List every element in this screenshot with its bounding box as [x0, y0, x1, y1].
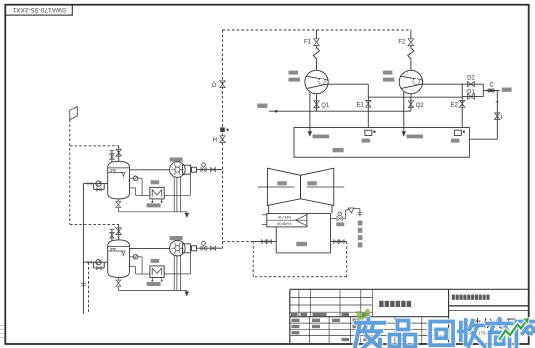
- svg-text:E2: E2: [451, 102, 459, 108]
- svg-text:60.8kPa: 60.8kPa: [277, 222, 290, 226]
- svg-text:D1: D1: [467, 89, 475, 95]
- svg-text:F1: F1: [304, 40, 312, 46]
- svg-text:41.7kPa: 41.7kPa: [278, 216, 291, 220]
- svg-text:H: H: [213, 138, 217, 144]
- svg-text:F2: F2: [398, 40, 406, 46]
- svg-text:Q1: Q1: [321, 103, 330, 109]
- svg-text:C: C: [489, 83, 494, 89]
- svg-text:D2: D2: [467, 76, 475, 82]
- svg-text:SWA170-55-2XX1: SWA170-55-2XX1: [12, 6, 66, 13]
- svg-text:G: G: [212, 83, 217, 89]
- svg-text:Q2: Q2: [416, 103, 425, 109]
- svg-text:E1: E1: [357, 102, 365, 108]
